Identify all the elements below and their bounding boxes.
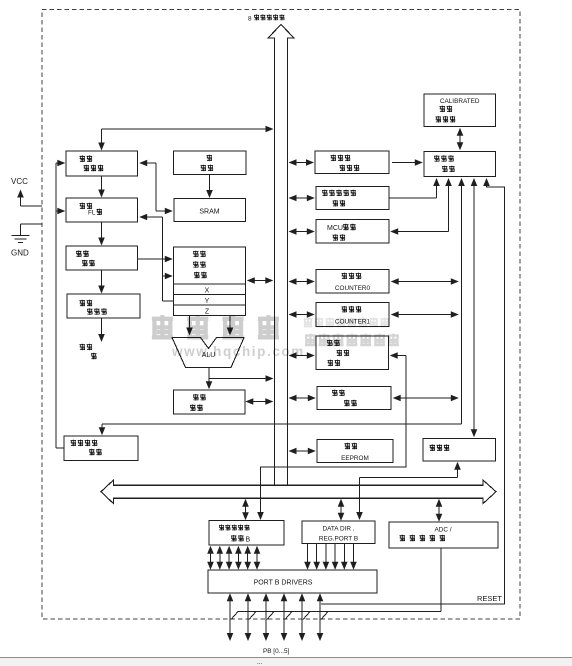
bus link ADC <box>436 499 443 522</box>
wire data register to drivers 6 <box>254 546 261 570</box>
wire data direction reg to drivers 5 <box>341 544 348 570</box>
box calibrated internal oscillator CALIBRATED <box>424 94 496 127</box>
box status register 状态注册 <box>174 390 246 414</box>
programming logic feed line <box>56 160 65 448</box>
svg-text:CALIBRATED: CALIBRATED <box>440 98 480 105</box>
GND wire <box>21 224 43 235</box>
control lines arrow <box>98 318 105 342</box>
wire data direction reg to drivers 6 <box>350 544 357 570</box>
box data direction register DATA DIR REG PORT B <box>302 521 375 544</box>
wire mcu control to timing <box>389 178 440 198</box>
wire watchdog to timing <box>392 159 423 166</box>
bus link general registers <box>247 277 273 284</box>
watermark url text <box>171 344 305 359</box>
box data register port B 数据寄存器端口B <box>209 521 284 546</box>
wire calibrated osc to timing <box>457 128 464 151</box>
wire serial interface to port register <box>257 352 406 520</box>
bus link watchdog <box>289 159 315 166</box>
svg-text:PB [0...5]: PB [0...5] <box>263 648 290 655</box>
wire data direction reg to drivers 4 <box>332 544 339 570</box>
wire control to programming logic <box>99 178 465 435</box>
box timing and control 时间和控制 <box>424 152 496 177</box>
wire data register to drivers 2 <box>217 546 224 570</box>
wire instruction reg to general regs <box>138 256 173 263</box>
wire stack pointer to sram <box>206 175 213 199</box>
svg-text:...: ... <box>257 659 263 666</box>
svg-text:FL: FL <box>88 210 96 217</box>
wire registers to ALU left <box>186 316 193 336</box>
watermark small row1 <box>304 317 389 327</box>
horizontal data bus arrow <box>101 480 496 504</box>
svg-text:Z: Z <box>205 308 210 315</box>
svg-text:VCC: VCC <box>11 177 28 186</box>
box mcu control register 单片机控制注册 <box>316 187 389 210</box>
wire pc-sram link <box>139 160 173 215</box>
bus link counter0 <box>289 278 315 285</box>
svg-text:SRAM: SRAM <box>199 209 219 216</box>
box SRAM <box>174 199 246 222</box>
box instruction register 指令注册 <box>66 246 138 270</box>
PB pins label <box>263 648 290 655</box>
bus link mcu status reg <box>289 228 315 235</box>
box data EEPROM 数据EEPROM <box>317 440 393 463</box>
svg-text:PORT B DRIVERS: PORT B DRIVERS <box>254 580 313 587</box>
svg-text:EEPROM: EEPROM <box>341 455 369 462</box>
svg-text:GND: GND <box>11 249 29 258</box>
8-bit data bus label <box>248 14 284 22</box>
ADC input line <box>238 548 442 612</box>
svg-text:COUNTER0: COUNTER0 <box>335 285 371 292</box>
VCC wire <box>17 190 42 207</box>
svg-text:DATA DIR .: DATA DIR . <box>322 526 354 533</box>
wire data register to drivers 5 <box>244 546 251 570</box>
wire data register to drivers 3 <box>226 546 233 570</box>
svg-text:X: X <box>205 287 210 294</box>
bus link serial interface <box>289 352 315 359</box>
wire instruction reg to decoder <box>98 270 105 294</box>
wire data direction reg to drivers 2 <box>313 544 320 570</box>
box interrupt unit 打断单位 <box>317 387 391 410</box>
wire data register to drivers 1 <box>207 546 214 570</box>
wire counter1 to control line <box>391 311 459 318</box>
wire bus to program counter <box>98 126 273 151</box>
bus link counter1 <box>289 311 315 318</box>
wire interrupt unit to control line <box>393 395 459 402</box>
wire oscillators to data direction register <box>356 462 461 520</box>
port pin PB4 <box>299 593 306 641</box>
dashed chip boundary <box>42 10 520 620</box>
box ADC analog comparator <box>389 522 498 548</box>
box universal serial interface 万能串行接口 <box>316 336 389 370</box>
svg-text:B: B <box>246 537 251 544</box>
svg-text:MCU: MCU <box>327 225 343 232</box>
svg-text:ADC /: ADC / <box>434 527 451 534</box>
box stack pointer 栈指针 <box>174 151 247 175</box>
watermark small row2 元器件在线商城 <box>305 334 399 347</box>
svg-text:Y: Y <box>205 298 210 305</box>
box watchdog timer 看门狗定时器 <box>315 151 389 174</box>
bus link data eeprom <box>289 448 316 455</box>
wire ALU output <box>206 368 274 390</box>
box general purpose registers 一般用途注册 <box>174 247 246 316</box>
RESET label <box>477 594 502 603</box>
page bottom divider <box>0 657 572 666</box>
svg-text:RESET: RESET <box>477 594 502 603</box>
wire flash to instruction register <box>98 222 105 246</box>
svg-text:8: 8 <box>248 16 252 23</box>
svg-text:www.hqchip.com: www.hqchip.com <box>171 344 305 359</box>
wire data direction reg to drivers 1 <box>304 544 311 570</box>
wire data direction reg to drivers 3 <box>323 544 330 570</box>
port pin PB0 <box>227 593 234 641</box>
wire counter0 to control line <box>391 278 459 285</box>
vertical data bus arrow <box>268 25 294 486</box>
RESET line <box>321 178 505 604</box>
GND label <box>11 249 29 258</box>
pin boundary slashes <box>231 612 328 620</box>
port pin PB2 <box>263 593 270 641</box>
ALU <box>172 338 244 368</box>
svg-text:REG.PORT B: REG.PORT B <box>319 536 358 543</box>
box timer counter0 定时器COUNTER0 <box>316 270 389 294</box>
control lines label <box>80 344 97 360</box>
bus link data direction register <box>338 499 345 521</box>
port pin PB1 <box>245 593 252 641</box>
ground symbol <box>12 236 30 243</box>
port pin PB3 <box>281 593 288 641</box>
wire timing to oscillators <box>471 178 478 437</box>
box program counter 节目计数器 <box>66 151 138 176</box>
wire data register to drivers 4 <box>235 546 242 570</box>
box mcu status register MCU状态注册 <box>316 220 389 244</box>
box timer counter1 定时器COUNTER1 <box>316 303 389 327</box>
wire program counter to flash <box>98 176 105 198</box>
VCC label <box>11 177 28 186</box>
port pin PB5 <box>317 593 324 641</box>
bus link status register <box>245 398 273 405</box>
wire flash-registers link <box>139 214 173 301</box>
box program flash 节目FLASH <box>66 198 138 222</box>
wire registers to ALU right <box>227 316 234 336</box>
box programming logic 程序设计逻辑 <box>64 436 138 461</box>
bus link data register port B <box>242 499 249 521</box>
wire timing to mcu status <box>390 178 452 235</box>
box port B drivers <box>208 570 377 593</box>
watermark big 华强芯城 <box>152 315 279 339</box>
bus link interrupt unit <box>289 395 316 402</box>
box instruction decoder 指令解码器 <box>67 294 140 318</box>
box oscillators 振荡器 <box>423 439 496 462</box>
bus link mcu control reg <box>289 195 315 202</box>
